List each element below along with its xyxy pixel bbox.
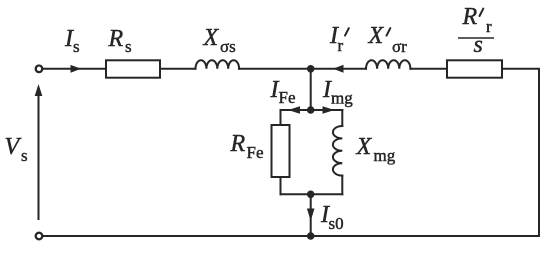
terminal: top-left open circle <box>36 66 43 73</box>
svg-text:X: X <box>356 134 373 160</box>
wire R_s to X_sigma_s <box>160 68 196 70</box>
inductor X_sigma_s <box>196 60 240 69</box>
svg-text:r: r <box>486 17 492 36</box>
wire R'_r to right corner and down right side <box>502 69 539 236</box>
wire X_sigma_s to X'_sigma_r <box>239 68 366 70</box>
svg-text:mg: mg <box>331 89 353 108</box>
svg-text:V: V <box>5 134 22 160</box>
left branch lower wire <box>280 177 282 194</box>
svg-text:σr: σr <box>392 37 407 56</box>
svg-text:mg: mg <box>374 146 396 165</box>
bottom rail of parallel branch <box>281 193 343 195</box>
current arrow I_r' head (points left) <box>333 65 344 73</box>
bottom junction dot of parallel branch <box>307 191 315 199</box>
wire X'_sigma_r to R'_r <box>410 68 447 70</box>
prime of I_r' <box>345 28 349 35</box>
svg-text:s: s <box>125 37 132 56</box>
svg-text:X: X <box>203 25 220 51</box>
resistor R'_r/s <box>447 60 502 77</box>
right branch lower wire <box>341 176 343 195</box>
voltage arrow V_s head (points up) <box>35 84 43 96</box>
node on bottom wire <box>307 232 315 240</box>
svg-text:s: s <box>474 32 483 58</box>
prime of X'_sigma_r <box>387 28 391 35</box>
svg-text:s: s <box>73 37 80 56</box>
fraction bar of R'_r/s <box>458 37 494 39</box>
prime of R'_r <box>480 9 484 16</box>
svg-text:Fe: Fe <box>247 143 264 162</box>
terminal: bottom-left open circle <box>36 233 43 240</box>
voltage arrow V_s shaft <box>38 95 40 219</box>
current arrow I_Fe head (points left) <box>288 106 300 114</box>
resistor R_s <box>106 60 160 77</box>
current arrow I_s0 head (points down) <box>307 209 315 222</box>
right branch upper wire <box>341 110 343 126</box>
left branch upper wire <box>280 110 282 125</box>
svg-text:R: R <box>462 4 478 30</box>
svg-text:s: s <box>21 146 28 165</box>
inductor X'_sigma_r <box>366 60 410 69</box>
current arrow I_mg head (points right) <box>323 106 335 114</box>
svg-text:r: r <box>338 36 344 55</box>
inductor X_mg <box>333 126 342 176</box>
current arrow I_s head <box>71 65 82 73</box>
svg-text:σs: σs <box>220 37 236 56</box>
top rail of parallel branch <box>281 109 343 111</box>
svg-text:X: X <box>368 23 385 49</box>
svg-text:Fe: Fe <box>279 88 296 107</box>
resistor R_Fe <box>272 125 290 177</box>
shunt junction dot <box>307 106 315 114</box>
svg-text:R: R <box>108 26 124 52</box>
bottom wire <box>44 235 539 237</box>
wire top-left horizontal <box>44 68 106 70</box>
wire node A down to shunt junction <box>310 69 312 110</box>
node A (top junction dot) <box>307 65 315 73</box>
svg-text:R: R <box>230 131 246 157</box>
svg-text:s0: s0 <box>329 214 344 233</box>
wire shunt junction down to bottom wire <box>310 194 312 236</box>
